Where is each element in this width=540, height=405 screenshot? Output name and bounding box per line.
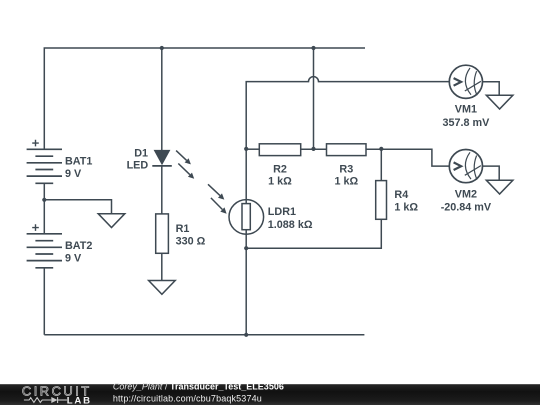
svg-text:http://circuitlab.com/cbu7baqk: http://circuitlab.com/cbu7baqk5374u — [113, 394, 262, 404]
svg-text:9 V: 9 V — [65, 168, 82, 180]
svg-text:R3: R3 — [339, 163, 353, 175]
node battery midpoint — [42, 198, 46, 202]
CircuitLab logo resistor-diode glyph — [24, 397, 67, 403]
node LED tap — [160, 46, 164, 50]
wire LED branch from top rail — [161, 48, 163, 151]
battery BAT1 — [27, 140, 93, 184]
svg-text:LED: LED — [127, 160, 149, 172]
svg-text:BAT2: BAT2 — [65, 240, 92, 252]
svg-text:Corey_Plant / Transducer_Test_: Corey_Plant / Transducer_Test_ELE3506 — [113, 382, 284, 392]
node LDR top / R2 left — [244, 147, 248, 151]
svg-text:D1: D1 — [134, 148, 148, 160]
wire R4 top — [380, 149, 382, 181]
svg-text:VM2: VM2 — [455, 188, 477, 200]
wire BAT2 negative to bottom rail — [43, 268, 45, 335]
svg-text:LAB: LAB — [67, 395, 92, 405]
svg-text:R2: R2 — [273, 163, 287, 175]
wire R3 to VM2 jog — [366, 149, 449, 166]
svg-text:330 Ω: 330 Ω — [176, 235, 206, 247]
ground (VM1) — [486, 95, 513, 109]
svg-text:1 kΩ: 1 kΩ — [394, 202, 418, 214]
svg-text:1.088 kΩ: 1.088 kΩ — [268, 219, 313, 231]
wire VM1 feed with hop over vertical — [246, 77, 449, 149]
light ray arrow 1 (from LED) — [176, 151, 191, 165]
ground (VM2) — [486, 180, 513, 194]
svg-text:BAT1: BAT1 — [65, 155, 92, 167]
resistor R2 — [259, 144, 300, 188]
wire VM1 to ground — [483, 82, 500, 95]
node mid-vertical tap — [311, 46, 315, 50]
wire R2 left stub — [246, 148, 259, 150]
wire LED cathode to R1 — [161, 166, 163, 214]
svg-text:1 kΩ: 1 kΩ — [268, 176, 292, 188]
light ray arrow 4 (to LDR) — [211, 198, 227, 214]
wire top rail with left drop to BAT1 — [44, 48, 365, 149]
wire R2-R3 link — [301, 148, 327, 150]
wire BAT1 negative to BAT2 positive — [43, 183, 45, 234]
wire R4 bottom — [246, 219, 381, 248]
svg-text:-20.84 mV: -20.84 mV — [441, 202, 492, 214]
svg-text:1 kΩ: 1 kΩ — [334, 176, 358, 188]
node R2/R3 junction — [311, 147, 315, 151]
svg-text:9 V: 9 V — [65, 252, 82, 264]
wire bottom rail — [44, 334, 364, 336]
wire battery midpoint to ground — [44, 200, 111, 214]
ground (battery midpoint) — [98, 214, 125, 228]
svg-text:VM1: VM1 — [455, 104, 477, 116]
wire LDR top — [245, 149, 247, 204]
resistor R4 — [376, 181, 419, 220]
ground (below R1) — [149, 281, 176, 295]
photoresistor LDR1 — [229, 200, 313, 235]
battery BAT2 — [27, 224, 93, 267]
voltmeter VM2 — [449, 150, 482, 183]
svg-text:R1: R1 — [176, 223, 190, 235]
wire LDR bottom to rail — [245, 234, 247, 335]
light ray arrow 3 (to LDR) — [208, 184, 224, 199]
resistor R3 — [327, 144, 367, 188]
node bottom rail tap — [244, 333, 248, 337]
node R3/R4/VM2 junction — [379, 147, 383, 151]
resistor R1 — [156, 214, 206, 253]
wire mid vertical from top rail to R2/R3 node — [313, 48, 315, 149]
wire VM2 to ground — [483, 166, 500, 180]
node LDR bottom / R4 return — [244, 246, 248, 250]
LED D1 — [127, 148, 172, 172]
svg-text:LDR1: LDR1 — [268, 206, 296, 218]
voltmeter VM1 — [449, 65, 482, 98]
svg-text:R4: R4 — [394, 189, 408, 201]
svg-text:357.8 mV: 357.8 mV — [442, 117, 490, 129]
light ray arrow 2 (from LED) — [178, 164, 194, 179]
wire R1 to ground — [161, 253, 163, 280]
